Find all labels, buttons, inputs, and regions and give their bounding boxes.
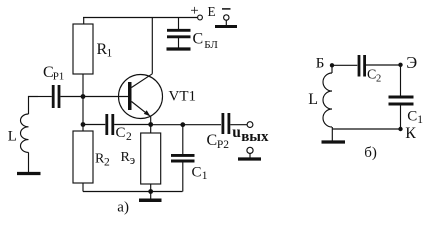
label VT1: [169, 89, 197, 105]
terminal output top: [247, 122, 253, 128]
wire base horizontal: [61, 96, 129, 98]
inductor Lb: [323, 73, 332, 127]
svg-text:К: К: [405, 125, 416, 142]
label a): [117, 200, 129, 216]
capacitor C1: [171, 125, 195, 192]
label Lb: [308, 91, 318, 108]
inductor L: [20, 114, 28, 152]
svg-text:C: C: [367, 68, 376, 83]
node base junction: [81, 94, 86, 99]
wire B down: [331, 65, 333, 73]
wire E2 down: [400, 65, 402, 96]
svg-text:P1: P1: [53, 70, 65, 82]
svg-text:C: C: [193, 31, 204, 48]
terminal E minus: [224, 15, 229, 20]
wire emitter horizontal: [151, 124, 221, 126]
ground Cbl: [167, 47, 191, 50]
ground b: [322, 140, 346, 143]
wire RE bottom lead: [150, 184, 152, 192]
svg-text:C: C: [192, 165, 202, 181]
capacitor Cbl: [167, 18, 191, 48]
wire bottom b: [332, 128, 400, 130]
label minus: [222, 8, 231, 10]
label C1: [192, 165, 208, 183]
label CP2: [207, 132, 230, 151]
node E2: [398, 63, 402, 67]
svg-text:L: L: [308, 91, 318, 108]
capacitor CP2: [223, 113, 247, 134]
svg-text:VT1: VT1: [169, 89, 197, 105]
svg-text:E: E: [208, 4, 216, 19]
node C2 junction: [81, 122, 86, 127]
wire E minus stub: [225, 20, 227, 25]
svg-text:э: э: [130, 153, 135, 167]
resistor R1: [73, 24, 93, 74]
label C2b: [367, 68, 381, 85]
svg-text:L: L: [8, 129, 17, 145]
node emitter junction: [148, 122, 153, 127]
svg-text:б): б): [364, 145, 377, 161]
svg-text:Б: Б: [316, 56, 325, 72]
wire ground stub: [150, 192, 152, 199]
node bottom junction: [148, 189, 153, 194]
svg-text:а): а): [117, 200, 129, 216]
svg-text:БЛ: БЛ: [204, 39, 218, 51]
resistor RE: [141, 133, 161, 184]
ground E minus: [215, 25, 237, 28]
wire R1 bottom lead: [82, 74, 84, 97]
svg-text:2: 2: [104, 157, 110, 169]
label K: [405, 125, 416, 142]
node K: [398, 127, 402, 131]
svg-text:C: C: [407, 109, 417, 125]
node B: [330, 63, 334, 67]
wire output ground stub: [249, 153, 251, 157]
node C1 junction: [180, 122, 185, 127]
svg-text:u: u: [232, 124, 241, 141]
wire CP1 left to L corner: [29, 97, 39, 115]
label C1b: [407, 109, 423, 127]
wire bottom rail: [83, 191, 183, 193]
label b): [364, 145, 377, 161]
svg-text:C: C: [116, 125, 126, 141]
label E: [208, 4, 216, 19]
capacitor CP1: [38, 85, 59, 108]
label CP1: [43, 64, 64, 82]
svg-text:P2: P2: [217, 139, 229, 151]
svg-text:1: 1: [417, 114, 423, 126]
ground L: [17, 172, 41, 175]
wire base to R2 branch: [82, 97, 84, 132]
terminal E plus: [198, 15, 203, 20]
label L: [8, 129, 17, 145]
label Cbl: [193, 31, 219, 52]
svg-text:2: 2: [376, 74, 381, 85]
wire R1 top lead: [83, 18, 85, 25]
svg-text:1: 1: [202, 170, 208, 182]
svg-text:2: 2: [126, 131, 132, 143]
label B: [316, 56, 325, 72]
wire L bottom to ground: [331, 127, 333, 141]
transistor VT1: [119, 18, 163, 125]
capacitor C2: [83, 114, 151, 135]
label plus: [190, 3, 198, 19]
wire top supply rail: [83, 17, 197, 19]
svg-text:C: C: [207, 132, 218, 149]
ground output: [238, 157, 261, 160]
wire R2 bottom lead: [82, 183, 84, 192]
ground main: [139, 198, 162, 202]
capacitor C1b: [389, 97, 414, 129]
label E2: [406, 53, 417, 72]
terminal output bottom: [247, 147, 253, 153]
label R2: [95, 152, 110, 169]
label u_out: [232, 124, 269, 145]
resistor R2: [73, 131, 93, 183]
label RE: [121, 150, 136, 167]
svg-text:1: 1: [107, 48, 113, 60]
wire L bottom lead: [28, 152, 30, 172]
wire RE top lead: [150, 125, 152, 134]
svg-text:Э: Э: [406, 53, 417, 72]
svg-text:вых: вых: [241, 129, 269, 145]
svg-text:+: +: [190, 3, 198, 19]
label R1: [97, 41, 113, 60]
capacitor C2b: [332, 55, 401, 77]
label C2: [116, 125, 133, 143]
